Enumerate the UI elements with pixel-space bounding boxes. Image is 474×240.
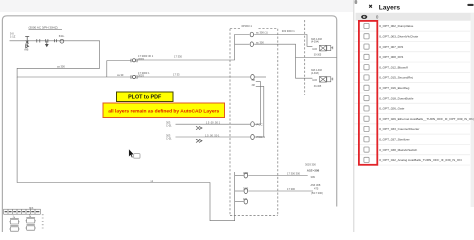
svg-text:303 3003 1: 303 3003 1: [282, 29, 296, 33]
svg-text:30f: 30f: [252, 79, 256, 82]
svg-text:63A.: 63A.: [59, 34, 65, 38]
svg-text:all layers remain as defined b: all layers remain as defined by AutoCAD …: [108, 108, 219, 114]
svg-text:0_OPT_042_Analog AutoBalls_TUR: 0_OPT_042_Analog AutoBalls_TURN_OFF_IF_0…: [379, 158, 461, 162]
svg-text:0_OPT_037_Sterilizer: 0_OPT_037_Sterilizer: [379, 138, 409, 142]
svg-text:1CR: 1CR: [312, 48, 317, 51]
svg-text:3CR: 3CR: [243, 171, 248, 175]
svg-text:1M: 1M: [243, 197, 247, 201]
svg-text:3003: 3003: [138, 74, 144, 78]
svg-text:309: 309: [311, 175, 316, 179]
svg-text:0_OPT_026_Gate: 0_OPT_026_Gate: [379, 107, 404, 111]
svg-text:475: 475: [314, 187, 319, 191]
svg-text:0_OPT_016_ElevReg: 0_OPT_016_ElevReg: [379, 86, 409, 90]
svg-text:ca 30: ca 30: [117, 73, 124, 77]
svg-text:Layers: Layers: [379, 5, 401, 12]
svg-text:0_OPT_003_DivertVlvChute: 0_OPT_003_DivertVlvChute: [379, 35, 418, 39]
svg-text:0_OPT_012_Blowoff: 0_OPT_012_Blowoff: [379, 65, 408, 69]
svg-text:POC 1: POC 1: [257, 135, 266, 139]
svg-text:A/B: A/B: [24, 47, 28, 51]
svg-text:C-01: C-01: [166, 136, 172, 140]
svg-text:17 33: 17 33: [173, 72, 180, 76]
svg-text:0_OPT_018_DownBottle: 0_OPT_018_DownBottle: [379, 96, 414, 100]
svg-text:17 300: 17 300: [287, 187, 295, 191]
svg-text:ac 300 (1): ac 300 (1): [256, 31, 268, 35]
svg-text:PLOT to PDF: PLOT to PDF: [128, 95, 162, 101]
svg-text:0_OPT_008_FP4: 0_OPT_008_FP4: [379, 55, 403, 59]
svg-text:30f: 30f: [252, 84, 256, 87]
svg-text:POC: POC: [257, 122, 263, 126]
svg-text:(4-30#): (4-30#): [311, 72, 319, 75]
svg-text:3CR: 3CR: [243, 187, 248, 191]
svg-text:30-305: 30-305: [314, 54, 322, 57]
svg-text:(3000 AC 3/PH 30HZ): (3000 AC 3/PH 30HZ): [29, 25, 58, 29]
svg-text:0_OPT_029_Ethernet AutoBalls__: 0_OPT_029_Ethernet AutoBalls__TURN_OFF_I…: [379, 117, 474, 121]
svg-text:0_OPT_015_SecondRej: 0_OPT_015_SecondRej: [379, 76, 413, 80]
svg-text:0P303.1: 0P303.1: [242, 24, 253, 28]
svg-text:1.5 .00 .50 1: 1.5 .00 .50 1: [206, 121, 221, 125]
svg-text:(5/17 300): (5/17 300): [311, 191, 323, 195]
svg-text:3003: 3003: [138, 57, 144, 61]
svg-text:1-1Z: 1-1Z: [10, 35, 16, 39]
svg-text:3003 300: 3003 300: [305, 162, 316, 166]
svg-text:1.5 .00 .50 1: 1.5 .00 .50 1: [205, 133, 220, 137]
svg-text:1CR: 1CR: [312, 79, 317, 82]
svg-text:A5Z=308: A5Z=308: [307, 168, 320, 172]
svg-text:0_OPT_007_FP2: 0_OPT_007_FP2: [379, 45, 403, 49]
svg-text:ac 300: ac 300: [256, 40, 264, 44]
svg-text:0_OPT_038_MainAirSwitch: 0_OPT_038_MainAirSwitch: [379, 148, 417, 152]
svg-text:0_OPT_002_DumpValve: 0_OPT_002_DumpValve: [379, 24, 413, 28]
svg-text:C-01: C-01: [166, 123, 172, 127]
svg-text:17 300 300: 17 300 300: [287, 171, 301, 175]
svg-text:A5Z 308: A5Z 308: [311, 183, 321, 187]
svg-text:17 330: 17 330: [174, 55, 182, 59]
svg-text:ca 300: ca 300: [57, 64, 65, 68]
svg-text:30-305: 30-305: [314, 85, 322, 88]
svg-text:0_OPT_033_CounterDiverter: 0_OPT_033_CounterDiverter: [379, 127, 419, 131]
svg-text:(4-30#): (4-30#): [311, 41, 319, 44]
